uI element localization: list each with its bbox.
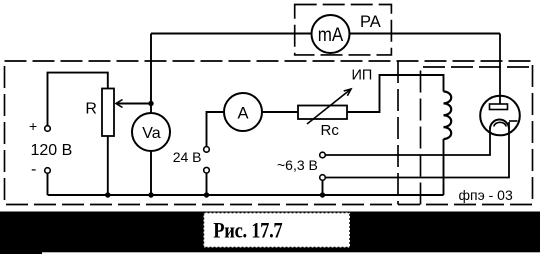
svg-text:24 В: 24 В [173, 149, 202, 165]
svg-text:фпэ - 03: фпэ - 03 [459, 187, 513, 203]
svg-text:A: A [237, 104, 248, 122]
svg-text:Рис. 17.7: Рис. 17.7 [213, 219, 282, 243]
svg-text:+: + [29, 118, 37, 134]
svg-text:~6,3 В: ~6,3 В [277, 157, 318, 173]
svg-text:120 В: 120 В [31, 142, 73, 159]
svg-text:R: R [85, 100, 97, 117]
svg-text:-: - [31, 161, 36, 178]
svg-text:Rc: Rc [321, 122, 340, 139]
svg-text:PA: PA [360, 13, 381, 31]
svg-text:mA: mA [318, 24, 344, 45]
svg-text:Va: Va [142, 125, 160, 142]
svg-text:ИП: ИП [352, 68, 373, 84]
